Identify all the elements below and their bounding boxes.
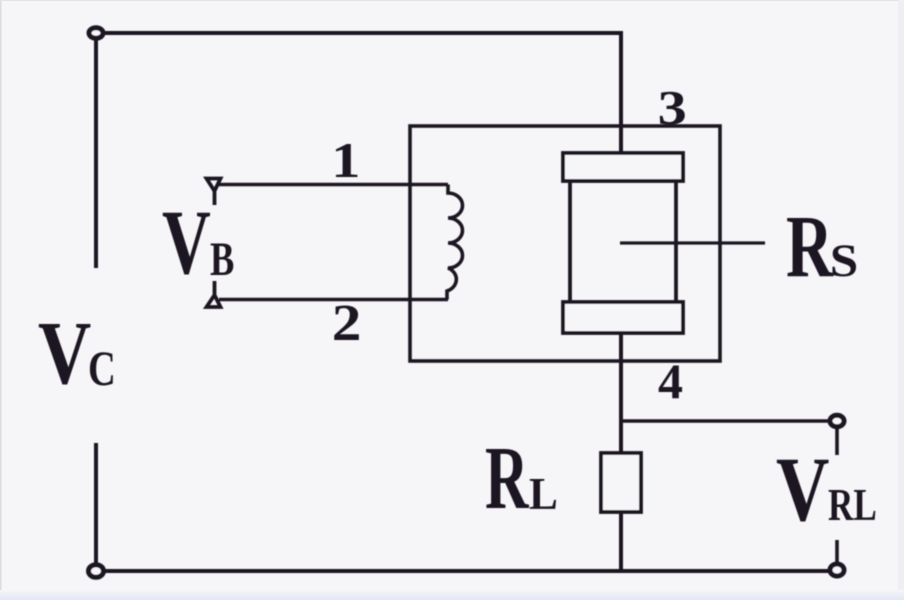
terminal flag bottom of Vb — [207, 281, 221, 307]
svg-text:4: 4 — [658, 353, 683, 409]
wire pin3 vertical (top feed to reed switch) — [619, 31, 623, 155]
wire Vrl lower lead — [835, 540, 839, 566]
source Vc label — [38, 303, 116, 403]
svg-text:R: R — [786, 197, 834, 295]
resistor RL label — [485, 428, 558, 528]
wire pin4 vertical (reed switch to RL) — [619, 333, 623, 455]
svg-text:1: 1 — [331, 133, 360, 188]
source Vrl label — [776, 440, 877, 541]
svg-text:2: 2 — [332, 294, 362, 352]
wire branch to Vrl top — [621, 419, 831, 423]
svg-text:S: S — [830, 234, 858, 287]
reed switch Rs top cap — [563, 153, 683, 181]
svg-text:V: V — [38, 303, 91, 403]
source Vb label — [162, 192, 234, 293]
svg-text:3: 3 — [658, 80, 687, 135]
node top-left terminal of Vc — [89, 28, 103, 39]
coil L1 — [447, 185, 463, 300]
resistor RL body — [601, 453, 641, 512]
wire left upper (Vc positive lead) — [94, 38, 98, 268]
svg-text:V: V — [162, 192, 211, 293]
Rs pointer line — [620, 241, 765, 244]
wire pin2 (Vb to coil bottom) — [219, 298, 448, 302]
svg-text:C: C — [88, 340, 116, 396]
reed switch Rs body right edge — [674, 181, 678, 302]
wire left lower (Vc negative lead) — [94, 443, 98, 566]
Rs label — [786, 197, 858, 295]
svg-text:RL: RL — [828, 480, 877, 530]
node bottom terminal of Vrl — [830, 564, 844, 576]
svg-text:V: V — [776, 440, 829, 541]
bottom edge tint band — [0, 590, 904, 600]
wire pin1 (Vb to coil top) — [219, 183, 448, 187]
svg-text:R: R — [485, 428, 529, 528]
reed switch Rs body left edge — [568, 181, 572, 302]
relay outer box — [410, 126, 720, 361]
node bottom-left terminal of Vc — [89, 565, 104, 578]
top wire — [100, 31, 621, 35]
wire RL bottom lead — [619, 512, 623, 571]
terminal flag top of Vb — [207, 179, 221, 206]
wire Vrl upper lead — [835, 427, 839, 455]
node top terminal of Vrl — [830, 415, 844, 426]
svg-text:B: B — [210, 233, 234, 286]
reed switch Rs bottom cap — [563, 302, 683, 333]
bottom wire — [101, 569, 831, 573]
svg-text:L: L — [529, 468, 558, 520]
